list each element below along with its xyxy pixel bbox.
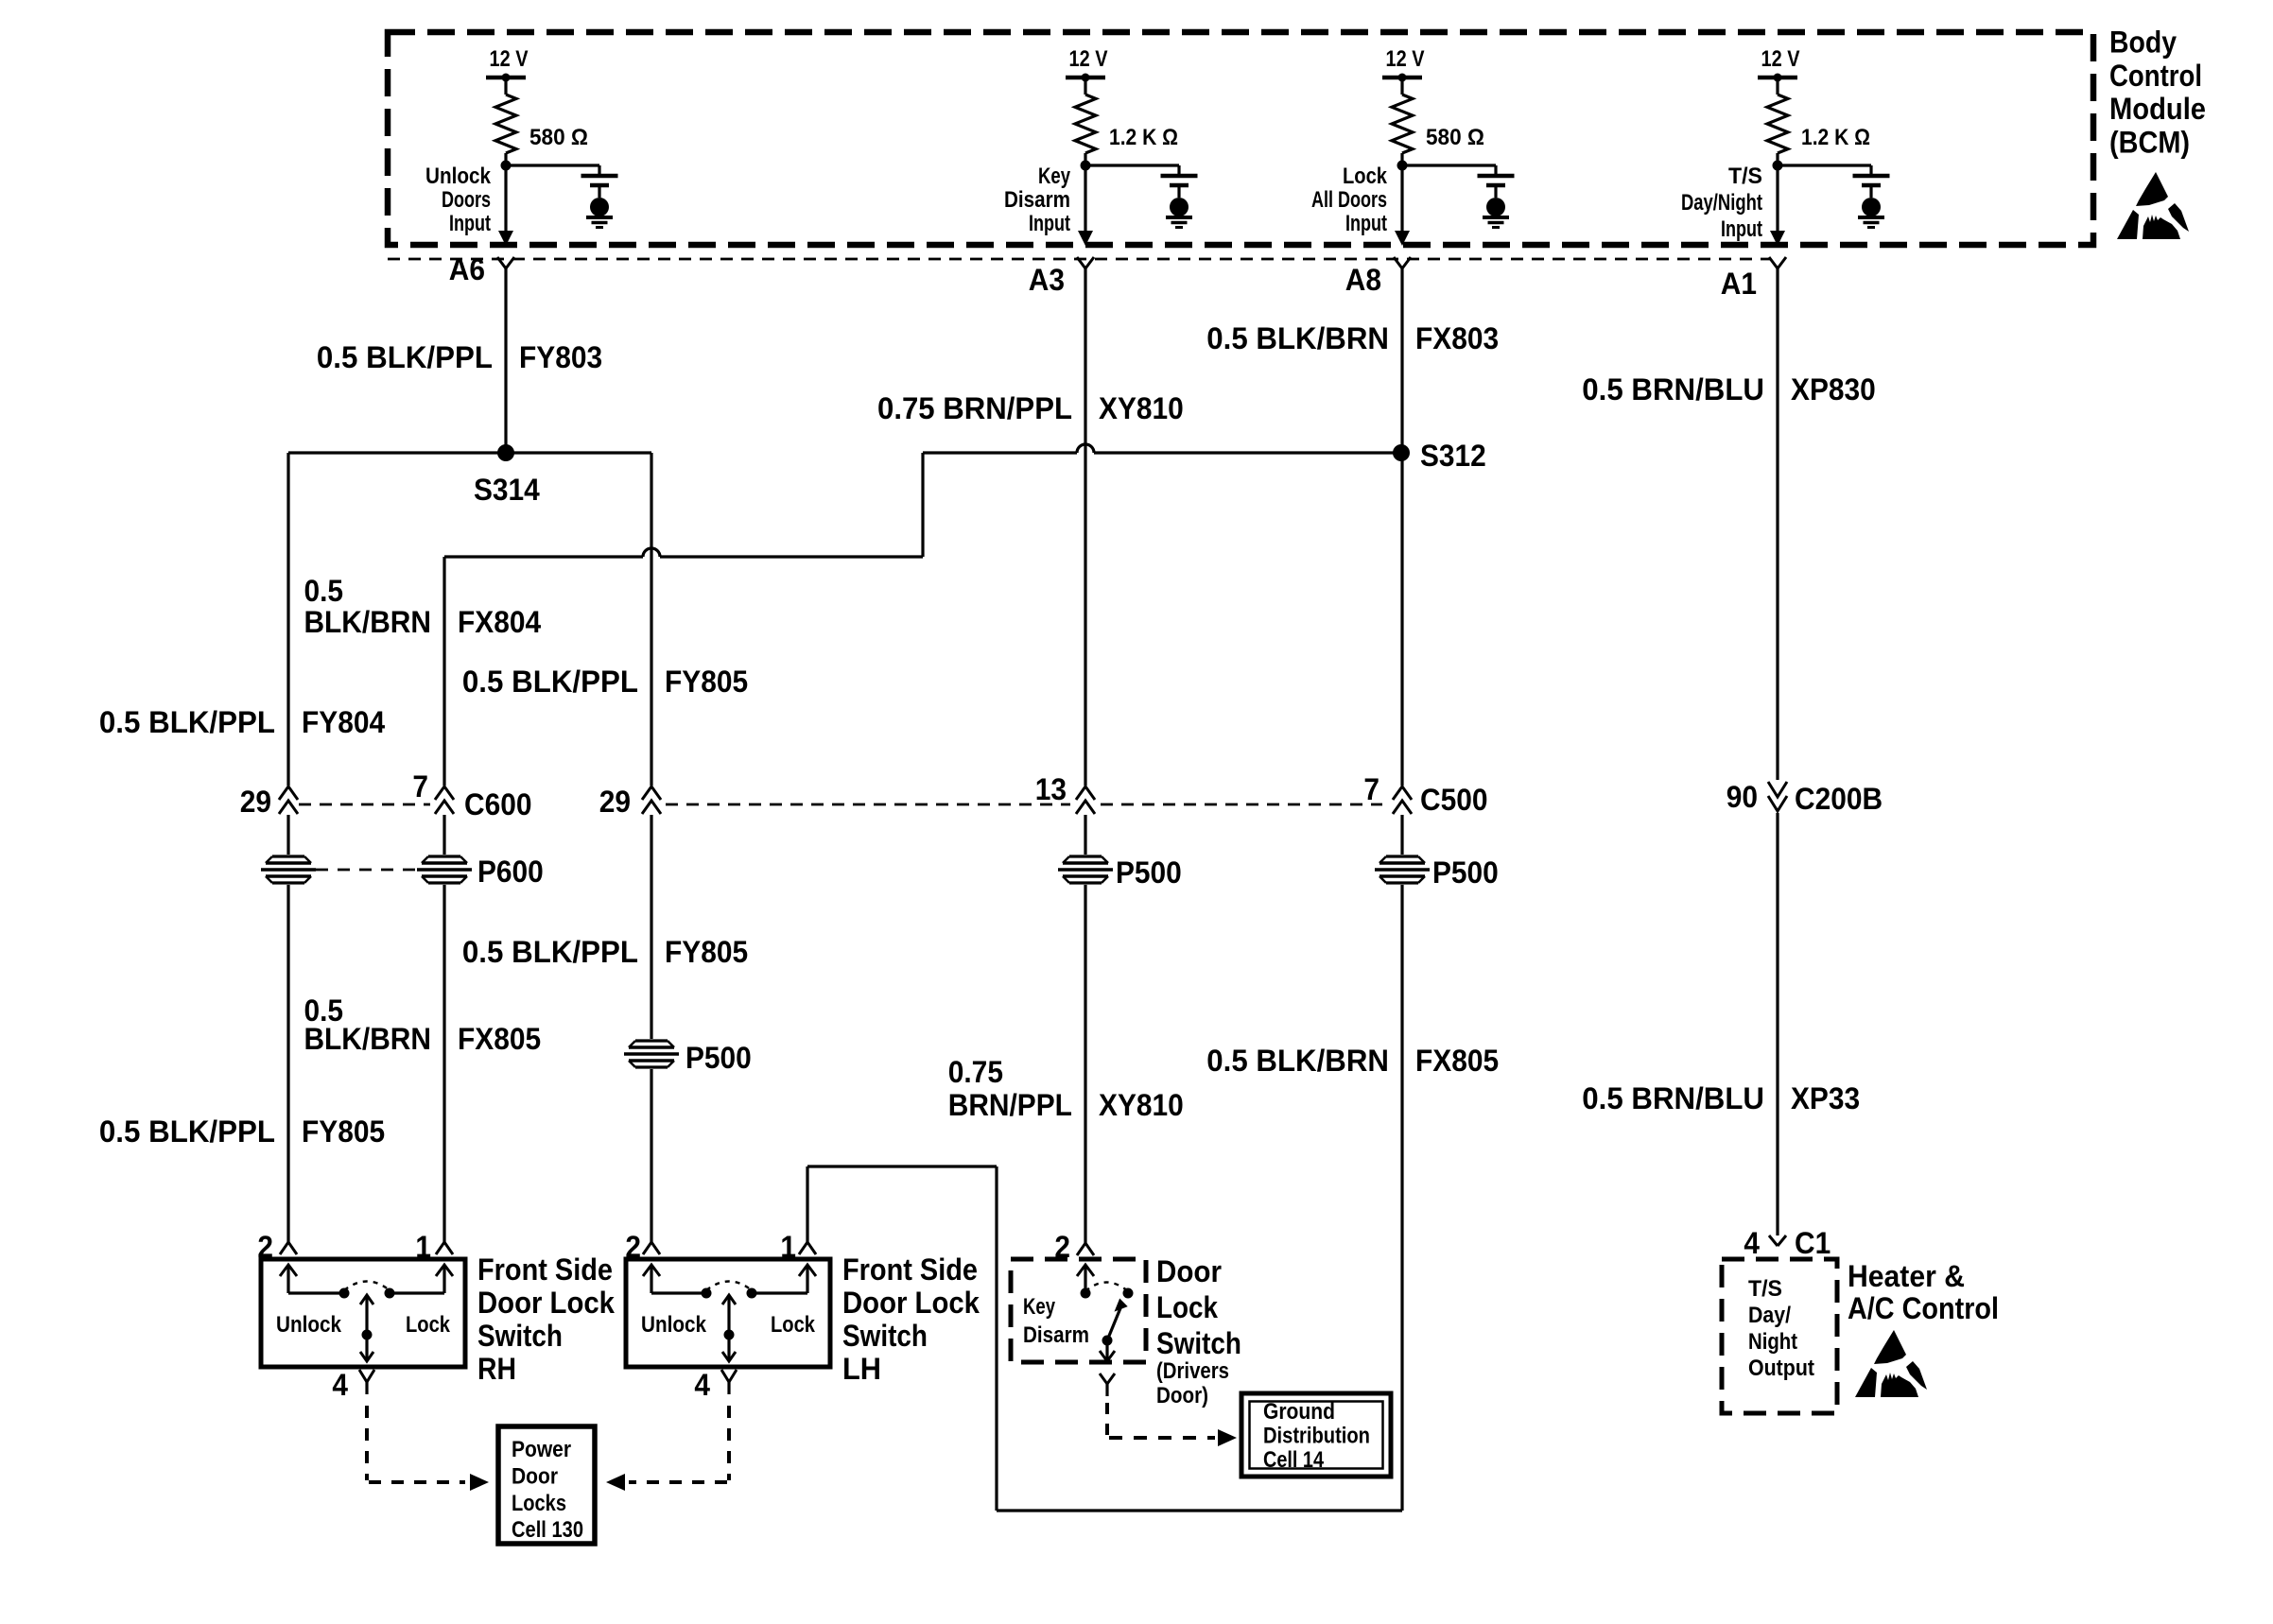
svg-text:XY810: XY810 bbox=[1099, 1088, 1184, 1122]
svg-text:FX805: FX805 bbox=[1415, 1044, 1499, 1078]
svg-text:4: 4 bbox=[694, 1368, 710, 1402]
svg-text:A3: A3 bbox=[1029, 263, 1065, 297]
svg-text:1: 1 bbox=[780, 1230, 796, 1264]
svg-text:29: 29 bbox=[599, 785, 631, 819]
svg-text:1: 1 bbox=[415, 1230, 431, 1264]
svg-text:Lock: Lock bbox=[1343, 164, 1387, 189]
svg-text:0.5 BLK/PPL: 0.5 BLK/PPL bbox=[317, 340, 493, 374]
svg-text:Disarm: Disarm bbox=[1004, 187, 1070, 213]
svg-text:Doors: Doors bbox=[442, 187, 491, 213]
svg-text:90: 90 bbox=[1726, 780, 1758, 814]
svg-text:Input: Input bbox=[449, 211, 491, 236]
svg-text:Door: Door bbox=[1156, 1254, 1222, 1288]
svg-text:580 Ω: 580 Ω bbox=[1426, 125, 1484, 150]
svg-text:Front Side: Front Side bbox=[477, 1253, 613, 1287]
svg-text:4: 4 bbox=[1744, 1226, 1760, 1260]
svg-text:4: 4 bbox=[332, 1368, 348, 1402]
svg-text:Lock: Lock bbox=[1156, 1290, 1219, 1324]
svg-text:Switch: Switch bbox=[1156, 1326, 1241, 1360]
svg-text:0.75 BRN/PPL: 0.75 BRN/PPL bbox=[877, 391, 1072, 425]
svg-text:A8: A8 bbox=[1345, 263, 1381, 297]
svg-text:XP830: XP830 bbox=[1791, 372, 1876, 406]
svg-text:Output: Output bbox=[1748, 1356, 1814, 1381]
svg-text:0.5 BLK/PPL: 0.5 BLK/PPL bbox=[99, 1114, 275, 1149]
svg-text:Distribution: Distribution bbox=[1263, 1424, 1370, 1449]
svg-text:Lock: Lock bbox=[771, 1312, 815, 1338]
svg-text:Unlock: Unlock bbox=[276, 1312, 341, 1338]
svg-text:0.75: 0.75 bbox=[948, 1055, 1003, 1089]
svg-text:C600: C600 bbox=[464, 787, 532, 821]
svg-text:Day/Night: Day/Night bbox=[1681, 190, 1762, 216]
svg-text:XP33: XP33 bbox=[1791, 1081, 1860, 1115]
svg-text:7: 7 bbox=[412, 769, 428, 803]
svg-text:0.5 BLK/BRN: 0.5 BLK/BRN bbox=[1206, 1044, 1389, 1078]
svg-text:RH: RH bbox=[477, 1352, 516, 1386]
svg-text:T/S: T/S bbox=[1748, 1276, 1782, 1302]
svg-text:FY804: FY804 bbox=[302, 705, 385, 739]
svg-text:7: 7 bbox=[1363, 772, 1379, 806]
svg-text:1.2 K Ω: 1.2 K Ω bbox=[1109, 125, 1178, 150]
svg-text:LH: LH bbox=[842, 1352, 881, 1386]
svg-text:Key: Key bbox=[1038, 164, 1070, 189]
svg-text:Lock: Lock bbox=[406, 1312, 450, 1338]
svg-text:A1: A1 bbox=[1721, 267, 1757, 301]
svg-text:580 Ω: 580 Ω bbox=[529, 125, 588, 150]
svg-text:Unlock: Unlock bbox=[425, 164, 491, 189]
svg-text:BLK/BRN: BLK/BRN bbox=[304, 605, 431, 639]
svg-text:A/C Control: A/C Control bbox=[1848, 1291, 1999, 1325]
svg-text:Cell 130: Cell 130 bbox=[512, 1517, 583, 1543]
svg-text:Door Lock: Door Lock bbox=[477, 1286, 616, 1320]
svg-text:Power: Power bbox=[512, 1437, 571, 1462]
svg-text:S312: S312 bbox=[1420, 439, 1486, 473]
svg-text:T/S: T/S bbox=[1728, 164, 1762, 189]
svg-text:P600: P600 bbox=[477, 855, 544, 889]
svg-text:Control: Control bbox=[2109, 59, 2202, 93]
svg-text:FY805: FY805 bbox=[302, 1114, 385, 1149]
svg-text:0.5 BRN/BLU: 0.5 BRN/BLU bbox=[1582, 1081, 1764, 1115]
svg-text:0.5 BRN/BLU: 0.5 BRN/BLU bbox=[1582, 372, 1764, 406]
svg-text:All Doors: All Doors bbox=[1311, 187, 1387, 213]
svg-text:C200B: C200B bbox=[1795, 782, 1883, 816]
svg-text:C1: C1 bbox=[1795, 1226, 1831, 1260]
svg-text:FY803: FY803 bbox=[519, 340, 602, 374]
svg-text:2: 2 bbox=[625, 1230, 641, 1264]
svg-text:Front Side: Front Side bbox=[842, 1253, 978, 1287]
svg-text:Body: Body bbox=[2109, 26, 2177, 60]
svg-text:2: 2 bbox=[1054, 1230, 1070, 1264]
svg-text:Locks: Locks bbox=[512, 1491, 566, 1516]
svg-text:Cell 14: Cell 14 bbox=[1263, 1447, 1324, 1473]
svg-text:Input: Input bbox=[1029, 211, 1070, 236]
svg-text:Switch: Switch bbox=[477, 1319, 563, 1353]
svg-text:Door Lock: Door Lock bbox=[842, 1286, 980, 1320]
svg-text:BLK/BRN: BLK/BRN bbox=[304, 1022, 431, 1056]
svg-text:Door: Door bbox=[512, 1463, 558, 1489]
svg-text:P500: P500 bbox=[1432, 855, 1499, 890]
svg-text:0.5 BLK/PPL: 0.5 BLK/PPL bbox=[462, 935, 638, 969]
svg-text:BRN/PPL: BRN/PPL bbox=[948, 1088, 1072, 1122]
svg-text:Night: Night bbox=[1748, 1329, 1797, 1355]
svg-text:Module: Module bbox=[2109, 92, 2206, 126]
svg-text:0.5 BLK/BRN: 0.5 BLK/BRN bbox=[1206, 321, 1389, 355]
svg-text:12 V: 12 V bbox=[1761, 46, 1801, 72]
svg-text:29: 29 bbox=[240, 785, 271, 819]
svg-text:0.5 BLK/PPL: 0.5 BLK/PPL bbox=[462, 665, 638, 699]
svg-text:0.5 BLK/PPL: 0.5 BLK/PPL bbox=[99, 705, 275, 739]
svg-text:(Drivers: (Drivers bbox=[1156, 1358, 1229, 1384]
svg-text:12 V: 12 V bbox=[490, 46, 529, 72]
svg-text:Door): Door) bbox=[1156, 1383, 1208, 1408]
svg-text:Day/: Day/ bbox=[1748, 1303, 1791, 1328]
svg-text:1.2 K Ω: 1.2 K Ω bbox=[1801, 125, 1870, 150]
svg-text:FY805: FY805 bbox=[665, 665, 748, 699]
svg-text:12 V: 12 V bbox=[1386, 46, 1426, 72]
svg-text:Switch: Switch bbox=[842, 1319, 928, 1353]
svg-text:FX805: FX805 bbox=[458, 1022, 541, 1056]
svg-text:C500: C500 bbox=[1420, 783, 1488, 817]
svg-text:Input: Input bbox=[1345, 211, 1387, 236]
svg-text:P500: P500 bbox=[685, 1041, 752, 1075]
svg-text:Input: Input bbox=[1721, 216, 1762, 242]
svg-text:Unlock: Unlock bbox=[641, 1312, 706, 1338]
svg-text:FY805: FY805 bbox=[665, 935, 748, 969]
svg-text:Heater &: Heater & bbox=[1848, 1259, 1965, 1293]
svg-text:13: 13 bbox=[1035, 772, 1067, 806]
svg-text:12 V: 12 V bbox=[1069, 46, 1109, 72]
svg-text:XY810: XY810 bbox=[1099, 391, 1184, 425]
svg-text:Key: Key bbox=[1023, 1294, 1055, 1320]
svg-text:S314: S314 bbox=[474, 473, 540, 507]
svg-text:(BCM): (BCM) bbox=[2109, 125, 2190, 159]
svg-text:FX803: FX803 bbox=[1415, 321, 1499, 355]
svg-text:2: 2 bbox=[257, 1230, 273, 1264]
svg-text:Disarm: Disarm bbox=[1023, 1322, 1089, 1348]
svg-text:Ground: Ground bbox=[1263, 1399, 1335, 1425]
svg-text:A6: A6 bbox=[449, 252, 485, 286]
svg-text:0.5: 0.5 bbox=[304, 574, 343, 608]
svg-text:P500: P500 bbox=[1116, 855, 1182, 890]
svg-text:FX804: FX804 bbox=[458, 605, 541, 639]
